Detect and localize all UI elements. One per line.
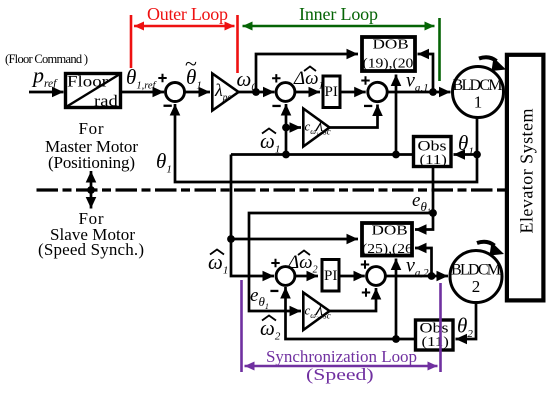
wire e_theta1 to DOB2 upper right input [415, 213, 433, 230]
node Delta omega_2 hat label [287, 251, 318, 276]
node junction dot on feedback at x286 [282, 151, 290, 159]
node v_a,2 junction dot [428, 272, 436, 280]
wire theta_2 from BLDCM 2 into Obs2 [456, 303, 477, 339]
wire omega_1 hat up into DOB1 bottom input [395, 75, 398, 155]
svg-text:(11): (11) [420, 152, 447, 167]
label Inner Loop (green) [243, 4, 440, 81]
svg-text:Synchronization Loop: Synchronization Loop [266, 347, 417, 366]
wire omega_1 hat down to slave loop [231, 155, 274, 277]
wire damping gain to summing junction B bottom [330, 105, 378, 128]
motor BLDCM 2 [450, 251, 502, 303]
svg-text:2: 2 [472, 277, 481, 296]
node junction dot under BLDCM 1 [473, 151, 481, 159]
svg-text:DOB: DOB [372, 223, 408, 238]
wire sync gain to summing junction D bottom [330, 288, 377, 311]
svg-text:Elevator System: Elevator System [517, 109, 537, 234]
svg-text:(Speed Synch.): (Speed Synch.) [38, 240, 144, 259]
svg-text:(11): (11) [422, 334, 449, 349]
node junction dot e_theta1 [429, 209, 437, 217]
svg-text:PI: PI [324, 268, 337, 284]
node omega_1 hat label (slave reference) [208, 250, 228, 277]
svg-text:(25),(26: (25),(26 [362, 242, 413, 257]
svg-text:(Speed): (Speed) [306, 366, 374, 384]
block Obs2 [416, 319, 454, 350]
wire Floor block to summing junction 1 [122, 91, 164, 94]
wire gain to summing junction A [239, 91, 275, 94]
wire v_a,1 feedback to DOB1 right input [418, 54, 434, 92]
node junction dot feeding damping gain [282, 124, 290, 132]
wire theta_1 position feedback into summing junction 1 [175, 104, 477, 182]
summing junction D (slave voltage) [361, 260, 386, 296]
svg-text:(Positioning): (Positioning) [48, 153, 135, 172]
wire summing junction 1 to position gain [184, 91, 210, 94]
wire omega_1 hat to DOB2 left input [231, 238, 358, 241]
block PI controller 2 [322, 260, 339, 292]
node v_a,1 junction dot [429, 88, 437, 96]
block DOB2 [362, 223, 413, 257]
wire p_ref input arrow [29, 91, 64, 94]
node dot on separation line [87, 186, 95, 194]
wire dash-dot separation line [37, 188, 507, 191]
wire speed feedback line (omega_1 hat) [231, 153, 412, 156]
wire omega_2 hat up into DOB2 bottom input [395, 259, 398, 340]
rotation arrow on BLDCM 1 [479, 57, 506, 71]
gain c_omega2 lambda_sc triangle [303, 293, 330, 331]
svg-text:Outer Loop: Outer Loop [147, 4, 228, 24]
node omega_0 junction dot [252, 88, 260, 96]
gain lambda_pc triangle [212, 74, 238, 111]
wire double arrow across separation line [90, 171, 93, 209]
block Obs1 [414, 137, 452, 168]
svg-text:~: ~ [185, 51, 197, 76]
svg-text:PI: PI [325, 84, 338, 100]
summing junction C (speed error, slave) [270, 259, 295, 292]
rotation arrow on BLDCM 2 [477, 242, 504, 256]
wire BLDCM 1 shaft angle down [476, 117, 479, 155]
wire to damping gain triangle 1 [286, 126, 301, 129]
summing junction A (speed error, master) [272, 74, 295, 107]
wire summing junction A to PI controller 1 [295, 91, 320, 94]
svg-text:BLDCM: BLDCM [451, 262, 501, 279]
wire e_theta1 from Obs1 down [432, 168, 435, 213]
wire omega_2 hat feedback line [286, 287, 415, 339]
node omega_1 hat label (master) [260, 129, 280, 156]
node junction dot on omega_2 feedback [392, 335, 400, 343]
block PI controller 1 [323, 76, 340, 108]
block DOB1 [362, 37, 415, 71]
motor BLDCM 1 [453, 67, 504, 118]
svg-text:BLDCM: BLDCM [453, 77, 503, 94]
wire omega_0 to DOB1 left input [256, 54, 358, 92]
wire summing junction C to PI controller 2 [295, 275, 318, 278]
node junction dot on feedback at x396 [392, 151, 400, 159]
label Outer Loop (red) [131, 4, 238, 73]
block Floor/rad converter [66, 73, 121, 110]
wire PI 1 to summing junction B [341, 91, 366, 94]
summing junction 1 (position error) [158, 74, 184, 107]
node theta_1 tilde label [185, 51, 202, 92]
gain c_omega1 lambda_sc triangle [303, 109, 330, 147]
summing junction B (master voltage) [361, 76, 387, 107]
node omega_2 hat label [260, 316, 281, 343]
wire summing junction B to BLDCM 1 [387, 91, 450, 94]
wire e_theta1 left and down to sync gain [249, 213, 433, 311]
wire v_a,2 feedback to DOB2 lower right input [415, 248, 432, 276]
label For Master Motor (Positioning) [45, 119, 138, 172]
svg-text:DOB: DOB [373, 37, 409, 52]
svg-text:1: 1 [474, 93, 483, 112]
wire theta_1 into Obs1 right input [454, 153, 478, 156]
svg-text:rad: rad [94, 92, 118, 109]
wire summing junction D to BLDCM 2 [385, 275, 448, 278]
wire omega_1 hat up into summing junction A [285, 104, 288, 155]
svg-text:Floor: Floor [67, 73, 108, 90]
block Elevator System [507, 55, 544, 301]
svg-text:For: For [79, 119, 104, 138]
svg-text:(Floor Command ): (Floor Command ) [5, 52, 88, 66]
node junction dot at x231 y239 [227, 235, 235, 243]
wire PI 2 to summing junction D [340, 275, 365, 278]
label Synchronization Loop (Speed) purple [242, 280, 441, 384]
svg-text:(19),(20: (19),(20 [363, 56, 414, 71]
svg-text:Inner Loop: Inner Loop [299, 4, 378, 24]
node Delta omega_1 hat label [293, 67, 324, 92]
label For Slave Motor (Speed Synch.) [38, 209, 144, 259]
